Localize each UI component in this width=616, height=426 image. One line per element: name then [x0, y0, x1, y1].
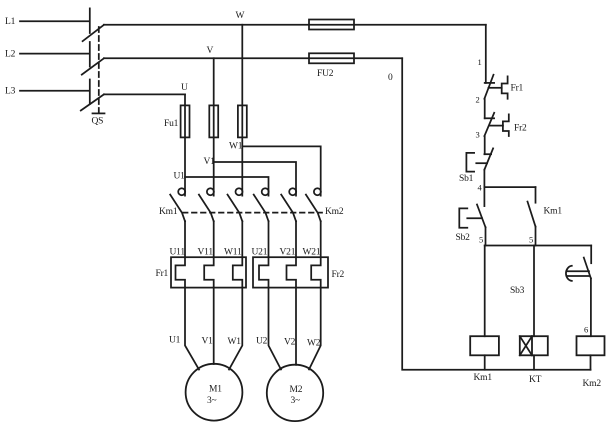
svg-text:Km1: Km1 [474, 373, 493, 383]
contactor Km1 contact V blade [199, 195, 214, 222]
wire KT contact to Km2 coil [590, 278, 592, 336]
wire Fr1 to M1 V1 [213, 288, 215, 364]
svg-text:U11: U11 [170, 248, 186, 258]
wire contact V to Fr1 [213, 221, 215, 257]
wire contact W to Fr1 [241, 221, 243, 257]
svg-text:Km2: Km2 [325, 207, 344, 217]
coil KT [520, 336, 548, 355]
svg-text:V11: V11 [198, 248, 214, 258]
svg-text:Km1: Km1 [159, 207, 178, 217]
wire V1 branch to Km2 [214, 162, 296, 196]
contactor Km2 contact V terminal hook [289, 188, 296, 195]
contactor Km2 contact U blade [254, 195, 269, 222]
Fr2 contact actuator [503, 114, 509, 136]
svg-text:2: 2 [476, 95, 480, 105]
switch QS pole 3 blade [81, 94, 104, 110]
pushbutton Sb1 cap [466, 153, 474, 172]
svg-text:U1: U1 [169, 336, 181, 346]
Fr1 heater V [204, 257, 214, 287]
wire contact U to Fr1 [184, 221, 186, 257]
svg-text:Fr2: Fr2 [514, 124, 527, 134]
svg-text:M1: M1 [209, 385, 222, 395]
wire contact U to Fr2 [268, 221, 270, 257]
fuse FU2b on V bus [309, 53, 354, 63]
coil Km1 [470, 336, 499, 355]
wire Km2 coil to rail [590, 355, 592, 369]
svg-text:3~: 3~ [207, 396, 217, 406]
wire W1 branch to Km2 [242, 146, 320, 195]
Fr1 heater W [233, 257, 243, 287]
contactor Km1 aux contact blade [528, 202, 536, 227]
fuse Fu1 phase U [181, 105, 190, 137]
contactor Km2 contact W terminal hook [314, 188, 321, 195]
svg-text:U21: U21 [252, 248, 268, 258]
switch QS pole 2 fixed contact [89, 42, 91, 67]
svg-text:Fr2: Fr2 [332, 270, 345, 280]
svg-text:U1: U1 [174, 172, 186, 182]
wire Fr1 to M1 W1 [229, 288, 242, 370]
svg-text:L3: L3 [5, 87, 16, 97]
wire phase U drop [184, 94, 186, 195]
svg-text:V2: V2 [284, 338, 296, 348]
svg-text:Sb1: Sb1 [459, 174, 474, 184]
svg-text:M2: M2 [290, 385, 303, 395]
switch QS linkage dashed [98, 27, 100, 113]
switch QS handle bar [93, 112, 105, 114]
KT delayed contact cup arc [566, 266, 572, 281]
wire contact V to Fr2 [295, 221, 297, 257]
switch QS pole 3 fixed contact [89, 80, 91, 105]
wire Fr2 to M2 V2 [295, 288, 297, 365]
svg-text:W11: W11 [224, 248, 242, 258]
wire Sb1 to node4 [483, 170, 485, 187]
pushbutton Sb1 blade [484, 148, 493, 169]
switch QS pole 1 fixed contact [89, 8, 91, 33]
wire Fr1 to M1 U1 [185, 288, 199, 370]
svg-text:6: 6 [584, 325, 588, 335]
Fr2 NC contact seat [485, 117, 494, 119]
pushbutton Sb2 cap [459, 208, 467, 227]
wire node2 segment [484, 99, 486, 119]
svg-text:Km1: Km1 [544, 207, 563, 217]
pushbutton Sb1 link [476, 162, 487, 164]
Fr2 NC contact blade [484, 113, 494, 136]
svg-text:W21: W21 [303, 248, 321, 258]
contactor Km1 contact W terminal hook [236, 188, 243, 195]
wire L2 incoming [20, 53, 89, 55]
wire 0 rail [402, 58, 590, 369]
svg-text:U: U [181, 83, 188, 93]
thermal relay Fr1 box [171, 257, 246, 287]
Fr1 NC contact blade [484, 75, 493, 99]
KT coil divider [531, 336, 533, 355]
contactor Km2 contact W blade [306, 195, 321, 222]
wire node4 cross branch [484, 186, 535, 188]
wire V bus (L2 out) [104, 57, 402, 59]
KT delayed contact blade [584, 258, 591, 279]
wire Km1 aux to node5 [535, 227, 537, 246]
wire Sb2 to node5 [485, 227, 487, 245]
wire phase V drop [213, 58, 215, 195]
svg-text:Sb2: Sb2 [456, 233, 471, 243]
linkage Km1-Km2 dashed [183, 212, 322, 214]
wire node3 segment [484, 136, 486, 154]
fuse FU2a on W bus [309, 20, 354, 30]
svg-text:3~: 3~ [291, 396, 301, 406]
Fr2 contact actuator link [490, 125, 503, 127]
svg-text:KT: KT [529, 375, 542, 385]
wire Fr2 to M2 W2 [309, 288, 321, 370]
contactor Km1 contact U blade [170, 195, 185, 222]
wire control right rail from W bus [485, 25, 487, 83]
contactor Km1 contact V terminal hook [207, 188, 214, 195]
wire L1 incoming [20, 20, 89, 22]
svg-text:Fr1: Fr1 [156, 269, 169, 279]
wire L3 incoming [20, 90, 89, 92]
wire contact W to Fr2 [320, 221, 322, 257]
fuse Fu1 phase V [209, 105, 218, 137]
KT delayed contact cup bars [568, 271, 589, 276]
svg-text:1: 1 [478, 57, 482, 67]
wire Km1 coil to rail [484, 355, 486, 369]
switch QS pole 1 blade [83, 25, 104, 41]
svg-text:W1: W1 [228, 337, 242, 347]
svg-text:5: 5 [479, 235, 483, 245]
wire U1 branch to Km2 [185, 177, 269, 196]
contactor Km1 contact U terminal hook [178, 188, 185, 195]
svg-text:Fr1: Fr1 [511, 84, 524, 94]
svg-text:4: 4 [478, 183, 483, 193]
wire node5 to KT coil [533, 246, 535, 337]
svg-text:Sb3: Sb3 [510, 286, 525, 296]
wire node5 bus [485, 245, 592, 247]
switch QS pole 2 blade [82, 58, 104, 74]
svg-text:V1: V1 [202, 337, 214, 347]
svg-text:L1: L1 [5, 17, 16, 27]
svg-text:W1: W1 [229, 141, 243, 151]
motor M1 [186, 364, 243, 421]
svg-text:3: 3 [476, 130, 480, 140]
Fr2 heater V [287, 257, 297, 287]
KT coil X mark [520, 336, 532, 355]
svg-text:V21: V21 [280, 248, 296, 258]
motor M2 [267, 365, 323, 421]
svg-text:L2: L2 [5, 50, 16, 60]
wire KT coil to rail [533, 355, 535, 369]
contactor Km2 contact V blade [281, 195, 296, 222]
wire node5 to KT delayed contact [590, 246, 592, 264]
pushbutton Sb2 blade [477, 205, 486, 228]
wire node5 to Km1 coil [484, 246, 486, 337]
wire phase W drop [241, 25, 243, 196]
Fr2 heater U [259, 257, 269, 287]
wire node4 to Km1 aux contact [535, 187, 537, 203]
Fr1 contact actuator link [489, 87, 502, 89]
svg-text:QS: QS [92, 117, 104, 127]
contactor Km1 contact W blade [228, 195, 243, 222]
svg-text:V1: V1 [204, 157, 216, 167]
svg-text:Km2: Km2 [583, 379, 602, 389]
wire Fr2 to M2 U2 [269, 288, 282, 370]
Fr1 heater U [176, 257, 186, 287]
svg-text:5: 5 [529, 235, 533, 245]
pushbutton Sb1 seat [484, 153, 491, 155]
contactor Km2 contact U terminal hook [262, 188, 269, 195]
Fr2 heater W [311, 257, 321, 287]
svg-text:W: W [236, 11, 245, 21]
thermal relay Fr2 box [253, 257, 328, 287]
svg-text:Fu1: Fu1 [164, 119, 179, 129]
wire W bus (L1 out to control) [104, 24, 486, 26]
svg-text:W2: W2 [307, 339, 321, 349]
wire L3 out to fuse U [104, 93, 185, 95]
pushbutton Sb2 link [467, 217, 482, 219]
coil Km2 [577, 336, 605, 355]
Fr1 contact actuator [502, 76, 508, 98]
wire node4 to Sb2 [483, 187, 485, 206]
Fr1 NC contact seat [485, 82, 494, 84]
svg-text:V: V [207, 46, 214, 56]
svg-text:FU2: FU2 [317, 69, 334, 79]
fuse Fu1 phase W [238, 105, 247, 137]
svg-text:U2: U2 [256, 337, 268, 347]
svg-text:0: 0 [388, 73, 393, 83]
